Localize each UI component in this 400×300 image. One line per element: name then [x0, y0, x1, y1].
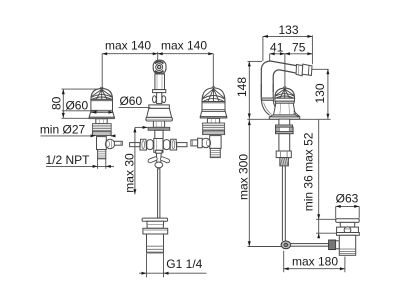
- svg-text:max 300: max 300: [237, 154, 251, 200]
- svg-text:Ø60: Ø60: [119, 94, 142, 108]
- svg-text:max 140: max 140: [105, 38, 151, 52]
- svg-text:min 36 max 52: min 36 max 52: [301, 132, 315, 211]
- svg-text:G1 1/4: G1 1/4: [166, 257, 202, 271]
- svg-text:41: 41: [270, 41, 284, 55]
- svg-text:130: 130: [313, 83, 327, 103]
- svg-text:max 140: max 140: [161, 38, 207, 52]
- svg-text:Ø60: Ø60: [65, 98, 88, 112]
- svg-text:148: 148: [235, 77, 249, 97]
- svg-text:max 180: max 180: [292, 255, 338, 269]
- svg-text:min Ø27: min Ø27: [40, 123, 86, 137]
- svg-text:80: 80: [49, 96, 63, 110]
- svg-text:75: 75: [292, 41, 306, 55]
- svg-text:max 30: max 30: [122, 153, 136, 193]
- svg-text:133: 133: [278, 23, 298, 37]
- svg-text:1/2 NPT: 1/2 NPT: [45, 153, 90, 167]
- svg-text:Ø63: Ø63: [336, 191, 359, 205]
